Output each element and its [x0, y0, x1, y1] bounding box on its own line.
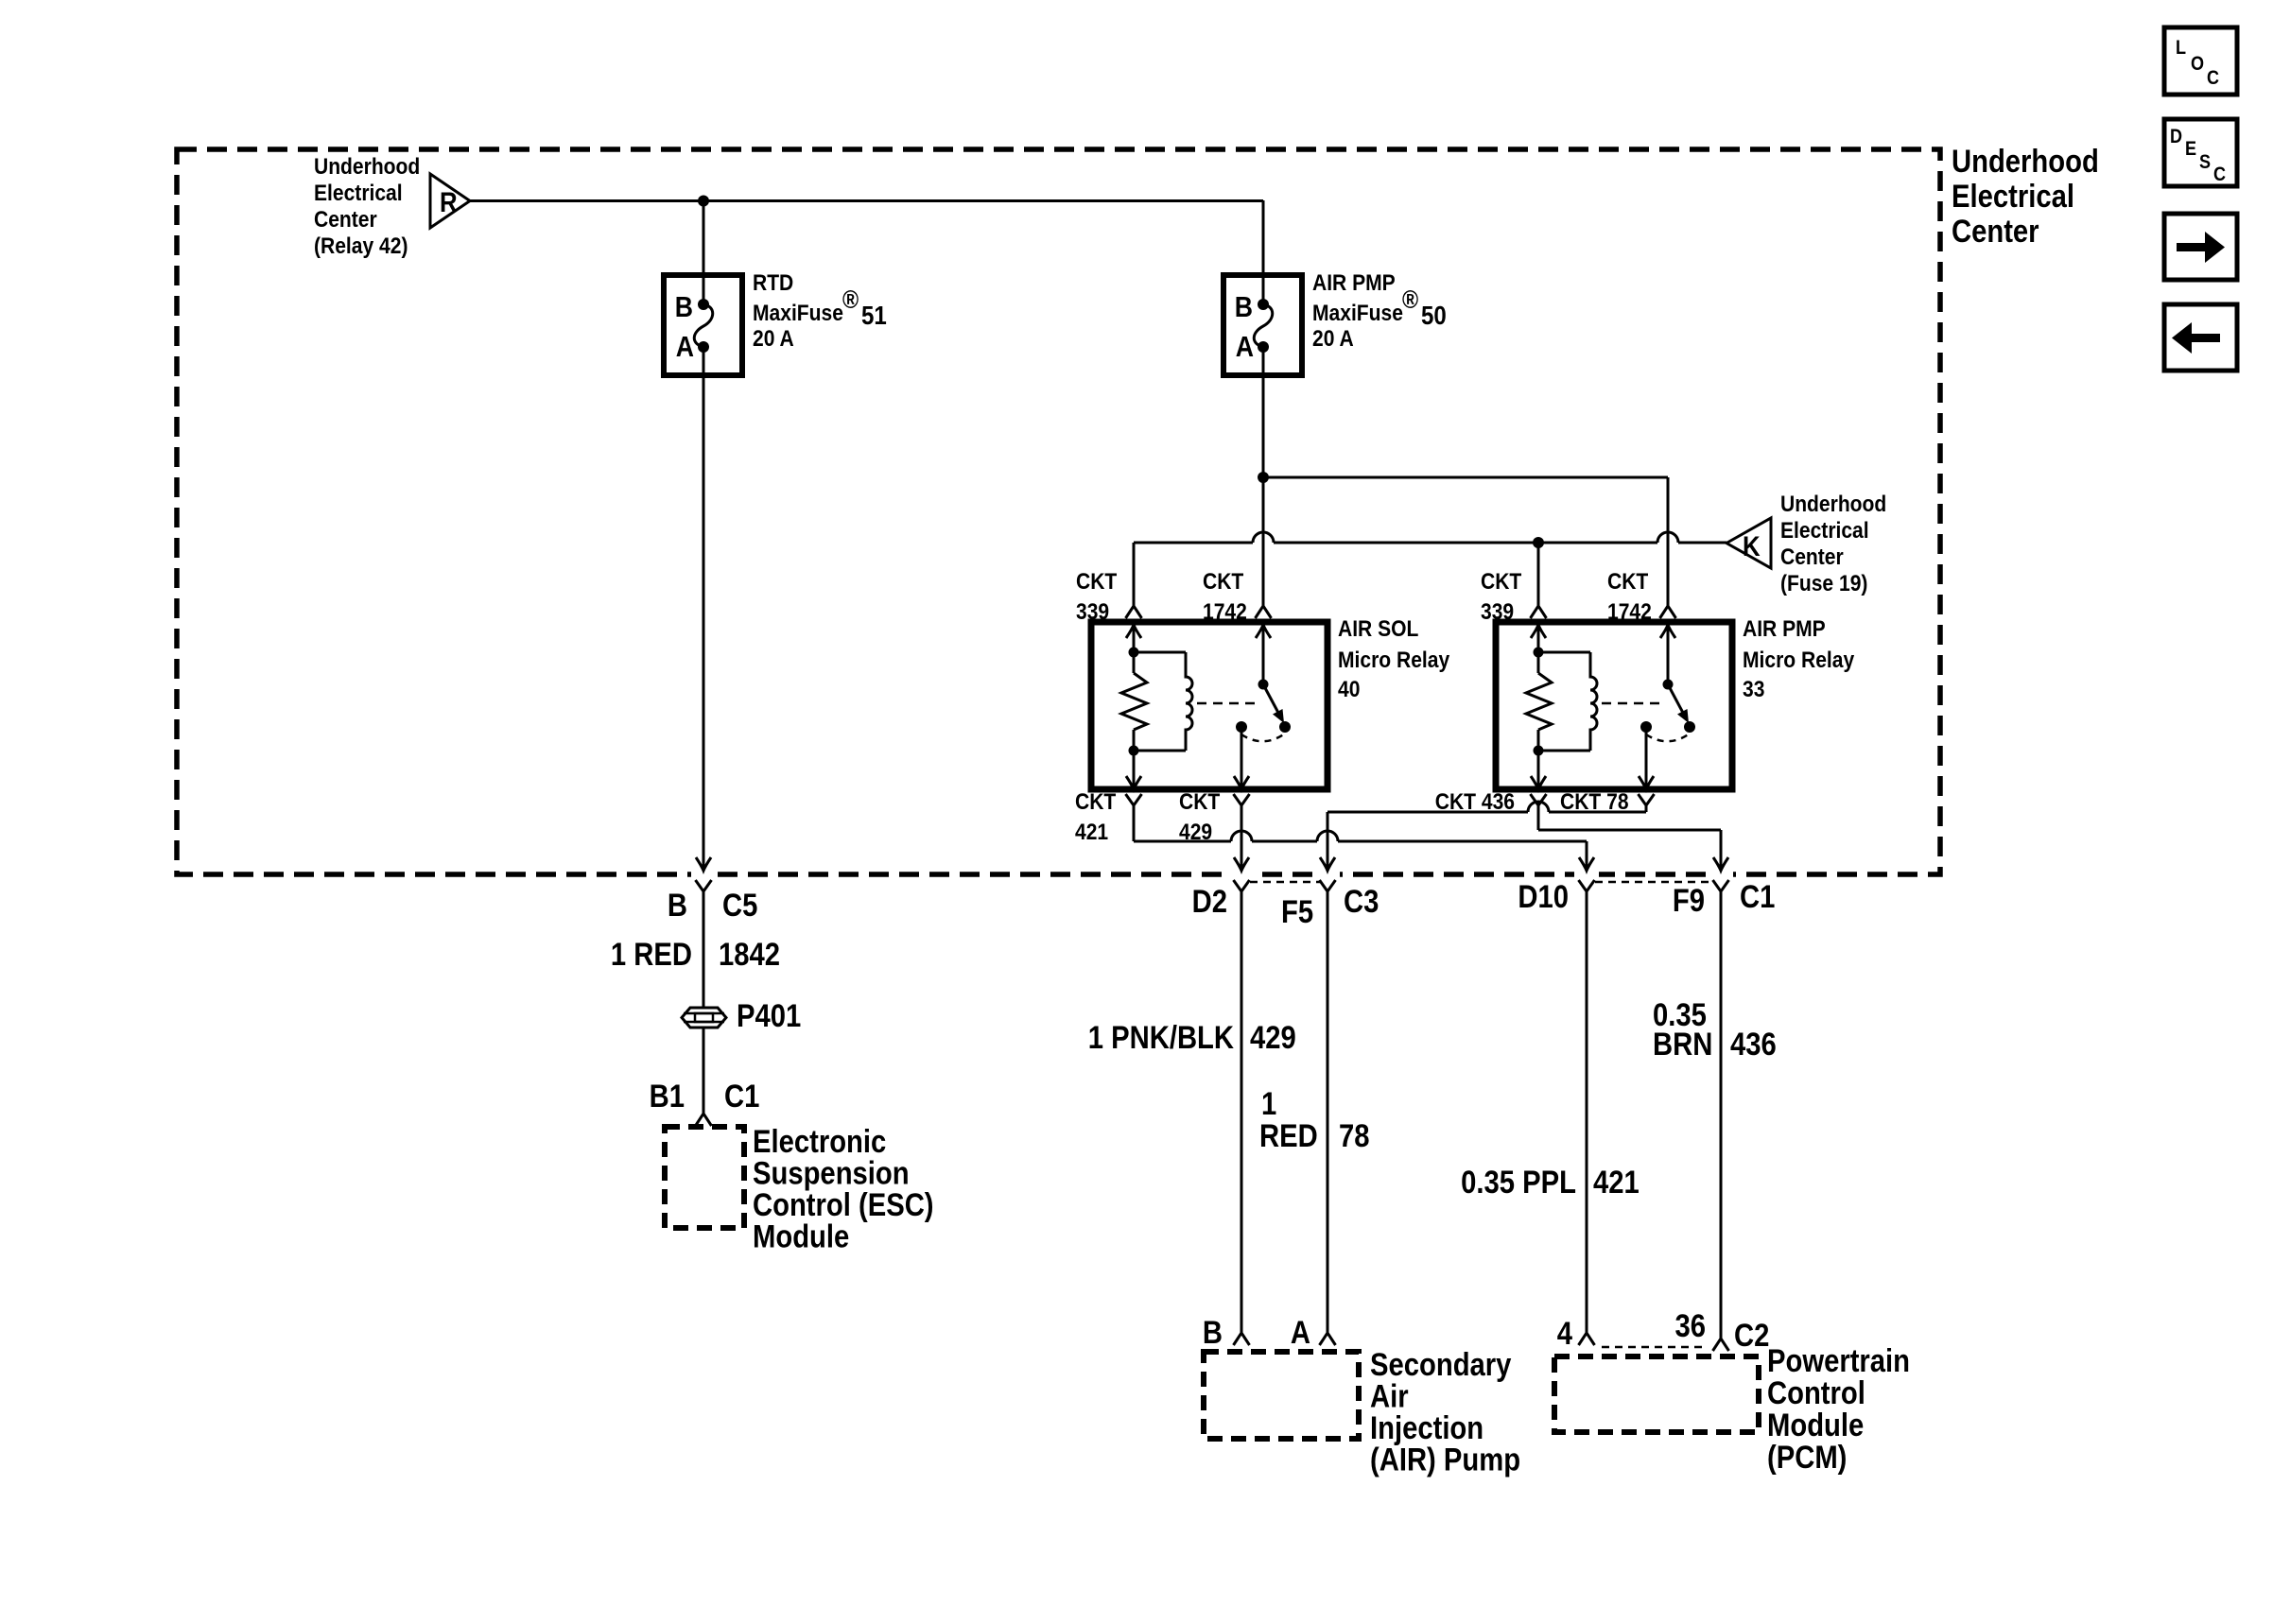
- svg-text:P401: P401: [737, 997, 801, 1034]
- svg-text:40: 40: [1338, 675, 1360, 701]
- svg-text:MaxiFuse: MaxiFuse: [753, 299, 843, 325]
- svg-text:Center: Center: [1780, 543, 1844, 569]
- svg-text:CKT: CKT: [1607, 567, 1648, 594]
- svg-text:RED: RED: [1259, 1117, 1318, 1154]
- svg-text:D: D: [2170, 126, 2182, 148]
- svg-text:AIR PMP: AIR PMP: [1312, 268, 1396, 295]
- svg-text:Electrical: Electrical: [314, 179, 403, 205]
- svg-text:D10: D10: [1518, 878, 1569, 915]
- svg-text:CKT 436: CKT 436: [1435, 787, 1515, 814]
- svg-text:Underhood: Underhood: [314, 152, 420, 179]
- svg-text:36: 36: [1674, 1307, 1706, 1344]
- svg-text:RTD: RTD: [753, 268, 793, 295]
- svg-text:A: A: [676, 331, 694, 363]
- svg-text:1742: 1742: [1607, 597, 1652, 624]
- svg-text:Electrical: Electrical: [1780, 516, 1869, 543]
- svg-text:CKT: CKT: [1076, 567, 1117, 594]
- svg-text:D2: D2: [1192, 883, 1227, 920]
- svg-text:Control: Control: [1767, 1374, 1865, 1411]
- svg-text:C3: C3: [1344, 883, 1379, 920]
- svg-text:1 PNK/BLK: 1 PNK/BLK: [1088, 1019, 1234, 1056]
- svg-text:B: B: [1203, 1314, 1223, 1351]
- svg-text:Underhood: Underhood: [1780, 490, 1886, 516]
- svg-text:20 A: 20 A: [1312, 324, 1354, 351]
- svg-text:Electrical: Electrical: [1952, 178, 2074, 215]
- svg-text:C: C: [2213, 164, 2226, 186]
- svg-text:1 RED: 1 RED: [611, 936, 692, 973]
- svg-text:K: K: [1743, 530, 1761, 561]
- svg-text:Micro Relay: Micro Relay: [1338, 646, 1449, 672]
- svg-text:Micro Relay: Micro Relay: [1743, 646, 1854, 672]
- svg-text:®: ®: [1402, 285, 1419, 314]
- svg-text:421: 421: [1593, 1164, 1640, 1201]
- svg-text:C2: C2: [1734, 1317, 1769, 1354]
- svg-text:B: B: [668, 887, 687, 924]
- svg-text:Center: Center: [1952, 213, 2039, 250]
- svg-text:CKT 78: CKT 78: [1560, 787, 1629, 814]
- svg-text:CKT: CKT: [1203, 567, 1243, 594]
- svg-text:CKT: CKT: [1075, 787, 1116, 814]
- svg-text:33: 33: [1743, 675, 1764, 701]
- svg-text:®: ®: [842, 285, 859, 314]
- svg-text:436: 436: [1730, 1026, 1777, 1063]
- svg-text:1742: 1742: [1203, 597, 1247, 624]
- svg-text:51: 51: [861, 300, 887, 330]
- svg-text:S: S: [2199, 151, 2211, 174]
- svg-text:O: O: [2191, 53, 2204, 76]
- svg-text:B: B: [675, 291, 693, 323]
- svg-text:F5: F5: [1281, 893, 1313, 930]
- svg-text:339: 339: [1076, 597, 1109, 624]
- svg-text:50: 50: [1421, 300, 1447, 330]
- svg-text:(Relay 42): (Relay 42): [314, 232, 408, 258]
- svg-text:MaxiFuse: MaxiFuse: [1312, 299, 1403, 325]
- svg-text:CKT: CKT: [1179, 787, 1220, 814]
- svg-text:(Fuse 19): (Fuse 19): [1780, 569, 1867, 596]
- svg-text:R: R: [440, 186, 458, 217]
- svg-text:A: A: [1236, 331, 1254, 363]
- svg-text:(PCM): (PCM): [1767, 1439, 1847, 1476]
- svg-text:C5: C5: [722, 887, 757, 924]
- svg-text:C1: C1: [1740, 878, 1775, 915]
- svg-text:339: 339: [1481, 597, 1514, 624]
- svg-text:L: L: [2176, 37, 2186, 60]
- svg-text:Underhood: Underhood: [1952, 143, 2099, 180]
- svg-text:AIR PMP: AIR PMP: [1743, 614, 1826, 641]
- svg-text:429: 429: [1250, 1019, 1296, 1056]
- svg-text:421: 421: [1075, 818, 1108, 844]
- svg-text:0.35 PPL: 0.35 PPL: [1461, 1164, 1576, 1201]
- svg-text:78: 78: [1339, 1117, 1370, 1154]
- svg-text:A: A: [1291, 1314, 1310, 1351]
- svg-text:BRN: BRN: [1653, 1026, 1712, 1063]
- svg-text:20 A: 20 A: [753, 324, 794, 351]
- svg-text:(AIR) Pump: (AIR) Pump: [1370, 1441, 1520, 1477]
- svg-text:429: 429: [1179, 818, 1212, 844]
- svg-text:Module: Module: [753, 1218, 849, 1254]
- svg-text:1842: 1842: [719, 936, 780, 973]
- svg-text:4: 4: [1557, 1315, 1573, 1352]
- svg-text:Center: Center: [314, 205, 377, 232]
- svg-text:1: 1: [1261, 1085, 1276, 1122]
- svg-text:B1: B1: [650, 1078, 685, 1114]
- svg-text:Powertrain: Powertrain: [1767, 1342, 1910, 1379]
- svg-text:C: C: [2207, 67, 2219, 90]
- svg-text:F9: F9: [1673, 882, 1705, 919]
- svg-text:Module: Module: [1767, 1407, 1864, 1443]
- svg-text:B: B: [1235, 291, 1253, 323]
- svg-text:C1: C1: [724, 1078, 759, 1114]
- svg-text:AIR SOL: AIR SOL: [1338, 614, 1418, 641]
- svg-text:CKT: CKT: [1481, 567, 1521, 594]
- svg-text:E: E: [2185, 138, 2196, 161]
